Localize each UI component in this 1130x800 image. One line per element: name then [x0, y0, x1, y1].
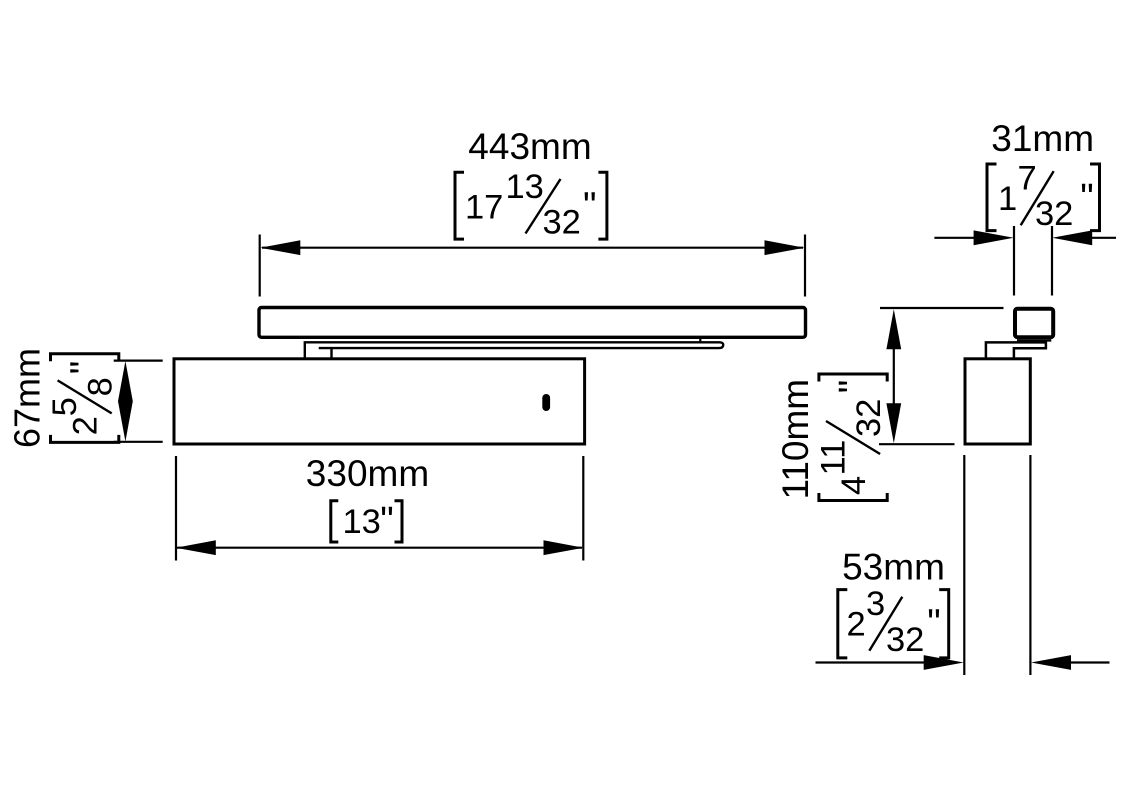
- svg-text:4: 4: [835, 476, 873, 495]
- bracket [2 3/32"]: [838, 585, 949, 659]
- dim 330mm line: [177, 547, 582, 549]
- slide shoe block (side view): [1015, 309, 1053, 338]
- dim 443mm extension line right: [804, 235, 806, 297]
- dim 53mm arrow right: [1031, 655, 1071, 670]
- dim 443mm arrow right: [765, 240, 805, 255]
- svg-text:330mm: 330mm: [306, 453, 429, 494]
- svg-text:7: 7: [1018, 160, 1037, 198]
- svg-text:": ": [380, 500, 394, 542]
- svg-text:11: 11: [814, 440, 852, 476]
- dim 31mm tail left: [934, 237, 975, 239]
- dim 67mm extension bottom: [114, 441, 163, 443]
- dim 110mm extension bottom: [879, 443, 955, 445]
- arm channel (plan view): [305, 342, 723, 359]
- dim 31mm arrow left: [974, 230, 1014, 245]
- dim 53mm arrow left: [924, 655, 964, 670]
- slide rail (top view): [259, 308, 806, 338]
- dim 53mm extension left: [963, 455, 965, 675]
- svg-text:17: 17: [465, 188, 503, 226]
- arm tick at rail: [699, 337, 701, 342]
- svg-text:32: 32: [1035, 195, 1073, 233]
- dim 110mm arrow down: [886, 403, 901, 443]
- dim 31mm extension left: [1013, 226, 1015, 296]
- svg-text:32: 32: [850, 399, 888, 437]
- dim 110mm arrow up: [886, 309, 901, 349]
- valve keyhole mark: [542, 394, 550, 411]
- dim 443mm line: [262, 247, 803, 249]
- dim 53mm tail right: [1071, 661, 1110, 663]
- svg-text:1: 1: [998, 180, 1017, 218]
- svg-text:32: 32: [543, 204, 581, 242]
- svg-text:2: 2: [847, 606, 866, 644]
- dim 31mm tail right: [1091, 237, 1116, 239]
- dim 110mm line: [893, 345, 895, 408]
- bracket [13"]: [331, 500, 402, 542]
- dim 53mm extension right: [1029, 455, 1031, 675]
- shoe base plate (side view): [1017, 339, 1051, 341]
- svg-text:": ": [1080, 177, 1094, 219]
- svg-text:443mm: 443mm: [468, 126, 591, 167]
- svg-text:32: 32: [886, 621, 924, 659]
- dim 330mm arrow left: [176, 540, 216, 555]
- svg-text:3: 3: [866, 585, 885, 623]
- closer body (side view): [965, 359, 1030, 444]
- bracket [17 13/32"]: [455, 168, 607, 242]
- dim 330mm arrow right: [544, 540, 584, 555]
- dim 443mm extension line left: [259, 235, 261, 297]
- dim 67mm diamond arrows: [118, 361, 133, 442]
- dim 330mm extension right: [582, 456, 584, 561]
- svg-text:": ": [832, 380, 874, 394]
- svg-text:5: 5: [46, 397, 84, 416]
- svg-text:": ": [927, 603, 941, 645]
- bracket [2 5/8"] (rotated): [46, 354, 120, 443]
- bracket [4 11/32"] (rotated): [814, 374, 888, 501]
- dim 67mm extension top: [114, 360, 163, 362]
- dim 443mm arrow left: [260, 240, 300, 255]
- arm channel inner vertical: [330, 348, 332, 359]
- dim 31mm extension right: [1051, 226, 1053, 296]
- dim 330mm extension left: [175, 456, 177, 561]
- svg-text:31mm: 31mm: [991, 118, 1094, 159]
- svg-text:13: 13: [343, 503, 381, 541]
- svg-text:2: 2: [67, 416, 105, 435]
- svg-text:67mm: 67mm: [7, 348, 48, 448]
- svg-text:13: 13: [506, 168, 544, 206]
- svg-text:110mm: 110mm: [775, 379, 816, 500]
- svg-text:": ": [64, 361, 106, 375]
- svg-text:53mm: 53mm: [842, 547, 945, 588]
- svg-text:": ": [583, 185, 597, 227]
- dim 53mm tail left: [816, 661, 926, 663]
- closer body (plan view): [174, 359, 585, 444]
- dim 110mm extension top: [880, 307, 1004, 309]
- bracket [1 7/32"]: [987, 160, 1100, 234]
- arm link (side view): [986, 342, 1046, 358]
- dim 31mm arrow right: [1052, 230, 1092, 245]
- svg-text:8: 8: [82, 377, 120, 396]
